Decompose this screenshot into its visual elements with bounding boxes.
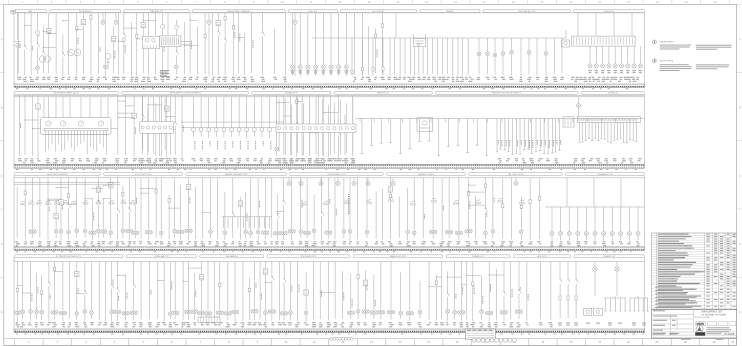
band B4 right labels bbox=[558, 323, 646, 326]
band B1 section header "ALTERNATOR" bbox=[50, 10, 121, 13]
band B2 terminal loop row mid labels bbox=[194, 141, 271, 149]
svg-text:B: B bbox=[739, 106, 741, 110]
band B1 feed rail bbox=[14, 12, 645, 14]
instrument lamp group band1 center bbox=[290, 13, 348, 76]
band B1 interconnect wires bbox=[24, 20, 244, 48]
band B1 section header "A C SYSTEM" bbox=[340, 10, 417, 13]
band B1 accessory rail feed bbox=[395, 14, 397, 38]
band B2 section header "CONSOLE" bbox=[581, 91, 645, 94]
band B1 section header "HORN CKT" bbox=[574, 10, 645, 13]
svg-text:CAB MARKER: CAB MARKER bbox=[225, 255, 238, 258]
band B1 right rail wire bbox=[644, 13, 646, 85]
svg-text:E: E bbox=[1, 310, 3, 314]
band B3 right lamp group bbox=[550, 207, 640, 241]
band B4 relay module K8 bbox=[594, 308, 603, 315]
band B2 wire number labels bbox=[18, 158, 642, 163]
svg-text:B: B bbox=[1, 106, 3, 110]
battery BAT1 bbox=[15, 13, 21, 76]
charge indicator lamp pair bbox=[101, 13, 118, 25]
svg-text:TRAILER CKT: TRAILER CKT bbox=[603, 255, 616, 258]
junction block TB4 bbox=[198, 317, 220, 323]
band B1 terminal strip bbox=[14, 84, 645, 87]
svg-text:GREEN WIRES: GREEN WIRES bbox=[660, 42, 675, 44]
flasher module K2 bbox=[417, 118, 433, 132]
band B3 lamp rail feed wires bbox=[567, 178, 621, 207]
band B2 sender sub-rail drop wires bbox=[361, 119, 489, 156]
bottom ruler zone numbers bbox=[28, 340, 735, 344]
title block frame bbox=[652, 310, 737, 339]
band B4 section header "W/S WIPER CKTS" bbox=[267, 255, 350, 258]
band B1 wire number labels bbox=[17, 77, 639, 82]
band B3 right lamp rail bbox=[545, 206, 644, 208]
band B1 intermediate branch wires bbox=[351, 38, 384, 76]
band B4 dome lamp DL1 bbox=[593, 262, 597, 297]
svg-text:HEATER: HEATER bbox=[446, 10, 454, 13]
revision table rows bbox=[652, 234, 737, 309]
band B2 sender comb mid labels bbox=[498, 140, 561, 148]
band B2 terminal loop row bbox=[192, 97, 272, 139]
band B3 wire number labels bbox=[15, 241, 639, 246]
svg-text:INSTRUMENT PANEL (ACTY): INSTRUMENT PANEL (ACTY) bbox=[53, 92, 79, 95]
band B3 section header "TAIL LIGHT CKTS" bbox=[469, 173, 563, 176]
band B4 section header "HEADLIGHT CKTS" bbox=[353, 255, 443, 258]
band B3 vertical cable label bbox=[348, 194, 349, 214]
band B4 section header "TRAILER CKT" bbox=[574, 255, 645, 258]
temp gauge M3 bbox=[60, 121, 65, 126]
revision table column rules bbox=[657, 233, 732, 310]
voltmeter M5 bbox=[98, 121, 103, 126]
turn signal switch S3 contact row bbox=[20, 200, 135, 205]
svg-text:TURN SIGNAL CKTS: TURN SIGNAL CKTS bbox=[327, 173, 346, 176]
alternator G1 bbox=[39, 56, 50, 62]
svg-text:WHITE WIRES: WHITE WIRES bbox=[660, 61, 674, 63]
trailer connector detail block bbox=[465, 329, 495, 339]
svg-text:W/S WIPER CKTS: W/S WIPER CKTS bbox=[301, 256, 318, 258]
svg-text:A: A bbox=[739, 37, 741, 41]
svg-text:HAZARD FLASHER CKTS: HAZARD FLASHER CKTS bbox=[225, 173, 248, 176]
fuse block F1 connector band1 right bbox=[572, 36, 636, 46]
console connector J6 bbox=[578, 117, 641, 123]
band B3 feed bus lines bbox=[14, 182, 120, 184]
band B1 section header "STARTING CKT" bbox=[124, 10, 190, 13]
band B1 below-strip terminal numbers bbox=[16, 87, 628, 90]
band B3 switch contact pairs right bbox=[302, 197, 524, 205]
instrument lamp group labels bbox=[291, 70, 349, 73]
band B4 section header "EXTERIOR LIGHTING CKTS" bbox=[14, 255, 123, 258]
top ruler numbers bbox=[22, 1, 717, 4]
svg-text:G: G bbox=[44, 59, 46, 61]
band B3 section header "STOP LIGHT CKTS" bbox=[104, 173, 183, 176]
band B3 section header "CLEARANCE CTS" bbox=[565, 173, 644, 176]
svg-text:STOP LIGHT CKTS: STOP LIGHT CKTS bbox=[135, 174, 152, 176]
svg-text:FUEL SOL: FUEL SOL bbox=[308, 11, 317, 13]
band B3 tail rail comb bbox=[224, 217, 270, 228]
right margin zone letters bbox=[737, 4, 742, 314]
band B1 section header "BAT" bbox=[14, 10, 47, 13]
band B3 terminal strip bbox=[14, 247, 645, 251]
band B4 section header "DIMMER CKT" bbox=[446, 255, 510, 258]
svg-text:CONSOLE: CONSOLE bbox=[608, 93, 618, 95]
warning lamp cluster labels bbox=[588, 70, 642, 73]
band B1 accessory rail bbox=[312, 37, 566, 39]
band B1 accessory branch lamps bbox=[477, 38, 562, 76]
band B3 right rail wire bbox=[644, 176, 646, 247]
band B4 right rail wire bbox=[644, 258, 646, 329]
band B4 feed rail bbox=[14, 261, 645, 263]
band B2 connector J4 wires bbox=[279, 97, 353, 157]
svg-text:C: C bbox=[739, 174, 741, 178]
svg-text:MARKER LIGHTS: MARKER LIGHTS bbox=[418, 173, 434, 176]
band B4 relay module K7 bbox=[584, 308, 592, 315]
band B2 left rail wire bbox=[13, 94, 15, 164]
lamp L2 band1 top bbox=[293, 13, 297, 76]
company address text block bbox=[706, 327, 731, 334]
band B4 interconnect wires bbox=[17, 268, 504, 295]
trailer socket scallops bbox=[472, 338, 517, 342]
band B3 tail rail bbox=[222, 216, 272, 218]
svg-text:ON HIGHWAY PROGRAM: ON HIGHWAY PROGRAM bbox=[701, 314, 726, 317]
horn feed wires band1 right bbox=[578, 13, 632, 36]
svg-text:D: D bbox=[739, 242, 741, 246]
svg-text:D: D bbox=[1, 242, 3, 246]
band B4 dome lamp DL2 bbox=[615, 262, 619, 297]
band B4 below-strip terminal numbers bbox=[16, 333, 644, 336]
title text MAIN WIRING DIAGRAM bbox=[695, 310, 726, 319]
svg-text:DOME LAMP CK: DOME LAMP CK bbox=[154, 255, 169, 258]
svg-text:HORN CKT: HORN CKT bbox=[604, 11, 615, 13]
band B3 interconnect wires bbox=[47, 185, 485, 213]
revision table frame bbox=[652, 233, 737, 310]
relay K1 bbox=[562, 40, 570, 47]
title block scale boxes bbox=[696, 322, 736, 326]
console feed lamp bbox=[576, 97, 580, 117]
svg-text:CLEARANCE CTS: CLEARANCE CTS bbox=[597, 173, 614, 176]
band B3 left rail wire bbox=[13, 176, 15, 247]
svg-text:HORN RELAY CKTS: HORN RELAY CKTS bbox=[518, 10, 536, 13]
band B2 console connector wires bbox=[578, 122, 637, 142]
band B2 section header "SENDER UNIT CIRCUITS (ACTY)" bbox=[435, 91, 578, 94]
band B1 section header "HORN RELAY CKTS" bbox=[483, 10, 570, 13]
company logo emblem bbox=[696, 326, 703, 333]
svg-text:AUX CKTS: AUX CKTS bbox=[537, 255, 547, 258]
band B2 section header "SIGNAL CKTS" bbox=[252, 91, 331, 94]
band B2 instrument cluster feed wires bbox=[44, 97, 108, 118]
band B2 sender comb wires bbox=[496, 119, 561, 155]
band B1 starter label block texture bbox=[160, 70, 170, 77]
svg-text:ALTERNATOR: ALTERNATOR bbox=[79, 10, 92, 13]
band B2 section header "GAUGES CTS" bbox=[334, 91, 432, 94]
band B2 sender sub-rail bbox=[355, 119, 645, 123]
band B2 section header "INSTRUMENT CLUSTER (SPEEDO)" bbox=[122, 91, 249, 94]
sheet text below title block bbox=[681, 339, 723, 340]
warning lamp cluster band1 bbox=[588, 46, 643, 68]
band B2 feed rail bbox=[14, 95, 645, 97]
band B1 section header "HEATER" bbox=[420, 10, 480, 13]
bottom ruler zone row bbox=[4, 339, 737, 346]
band B4 door switch branches bbox=[559, 262, 578, 319]
auxiliary socket scallops band4 left bbox=[330, 337, 353, 340]
note 1 symbol circled 1 bbox=[653, 40, 657, 44]
fuel gauge M2 bbox=[46, 121, 51, 126]
band B4 section header "AUX CKTS" bbox=[513, 255, 571, 258]
band B3 below-strip terminal numbers bbox=[16, 250, 631, 253]
AC relay module K3 bbox=[414, 34, 426, 47]
left margin zone letters bbox=[0, 4, 4, 314]
svg-text:DIMMER CKT: DIMMER CKT bbox=[472, 256, 485, 258]
svg-text:GAUGES CTS: GAUGES CTS bbox=[377, 92, 390, 95]
note 1 paragraph column 2 bbox=[696, 45, 732, 50]
instrument cluster U2 outline bbox=[41, 118, 112, 135]
top margin ruler ticks bbox=[8, 0, 729, 4]
band B2 connector J3 wires bbox=[143, 97, 171, 156]
ignition key symbol bbox=[105, 53, 111, 70]
band B2 below-strip terminal numbers bbox=[16, 168, 637, 171]
note 1 paragraph column 1 bbox=[660, 45, 691, 50]
svg-text:E: E bbox=[739, 310, 741, 314]
note 2 symbol circled 2 bbox=[653, 59, 657, 63]
band B2 right rail wire bbox=[644, 94, 646, 164]
band B4 section header "CAB MARKER" bbox=[200, 255, 264, 258]
lamp L1 band1 top bbox=[207, 13, 211, 76]
band B2 interconnect wires bbox=[24, 100, 338, 133]
svg-text:MAIN WIRING CKT: MAIN WIRING CKT bbox=[702, 310, 724, 313]
svg-text:C: C bbox=[1, 174, 3, 178]
band B3 section header "HAZARD FLASHER CKTS" bbox=[186, 173, 287, 176]
title block field label texts bbox=[653, 310, 679, 334]
band B2 section header "INSTRUMENT PANEL (ACTY)" bbox=[14, 91, 119, 94]
bulkhead connector J4 bbox=[276, 124, 356, 133]
svg-text:INSTRUMENT CLUSTER (SPEEDO): INSTRUMENT CLUSTER (SPEEDO) bbox=[170, 93, 202, 95]
svg-text:IGNITION AND CHARGING: IGNITION AND CHARGING bbox=[227, 10, 251, 13]
band B3 section header "MARKER LIGHTS" bbox=[386, 173, 465, 176]
oil pressure gauge M4 bbox=[78, 121, 83, 126]
svg-text:A: A bbox=[1, 37, 3, 41]
band B3 turn signal top lamps bbox=[287, 178, 518, 186]
band B4 trailer pin comb B bbox=[629, 296, 649, 311]
svg-text:HEADLIGHT CKTS: HEADLIGHT CKTS bbox=[390, 255, 407, 258]
ammeter M1 bbox=[68, 49, 81, 56]
svg-text:TAIL LIGHT CKTS: TAIL LIGHT CKTS bbox=[508, 173, 524, 176]
note 2 paragraph column 1 bbox=[660, 64, 692, 71]
band B1 section header "IGNITION AND CHARGING" bbox=[192, 10, 285, 13]
svg-text:A C SYSTEM: A C SYSTEM bbox=[373, 10, 385, 13]
band B4 left rail wire bbox=[13, 258, 15, 329]
band B3 section header "LIGHT SWITCH FEEDS" bbox=[14, 173, 101, 176]
svg-text:SENDER UNIT CIRCUITS (ACTY): SENDER UNIT CIRCUITS (ACTY) bbox=[492, 92, 521, 95]
instrument cluster pin header bbox=[44, 128, 108, 132]
band B1 accessory rail comb wires bbox=[390, 38, 468, 76]
bus terminal 30 box bbox=[11, 10, 16, 13]
svg-text:CT-13025: CT-13025 bbox=[724, 333, 735, 336]
svg-text:SIGNAL CKTS: SIGNAL CKTS bbox=[285, 92, 298, 95]
title block field rows left bbox=[652, 310, 737, 336]
band B4 section header "DOME LAMP CK" bbox=[126, 255, 197, 258]
band B2 terminal strip bbox=[14, 165, 645, 169]
band B4 wire number labels bbox=[16, 322, 553, 327]
band B1 section header "FUEL SOL" bbox=[288, 10, 337, 13]
band B3 feed rail bbox=[14, 177, 645, 179]
band B3 section header "TURN SIGNAL CKTS" bbox=[290, 173, 384, 176]
svg-text:LIGHT SWITCH FEEDS: LIGHT SWITCH FEEDS bbox=[47, 174, 68, 176]
starter motor connector J2 hatched box bbox=[160, 36, 181, 47]
signature fields bottom left bbox=[653, 333, 678, 335]
sender comb terminal box J5 bbox=[563, 117, 574, 127]
svg-text:EXTERIOR LIGHTING CKTS: EXTERIOR LIGHTING CKTS bbox=[56, 256, 81, 258]
band B4 trailer pin comb A bbox=[604, 296, 626, 311]
svg-text:MODEL CO-4070A: MODEL CO-4070A bbox=[695, 316, 710, 319]
note 2 paragraph column 2 bbox=[696, 64, 730, 69]
band B1 left rail wire bbox=[13, 13, 15, 85]
company logo black bar bbox=[695, 332, 705, 335]
voltage regulator VR1 box bbox=[142, 36, 159, 49]
band B4 terminal strip bbox=[14, 329, 645, 333]
svg-text:STARTING CKT: STARTING CKT bbox=[150, 10, 165, 13]
band B2 instrument cluster output wires bbox=[46, 132, 107, 154]
printed circuit connector J3 bbox=[140, 122, 174, 134]
